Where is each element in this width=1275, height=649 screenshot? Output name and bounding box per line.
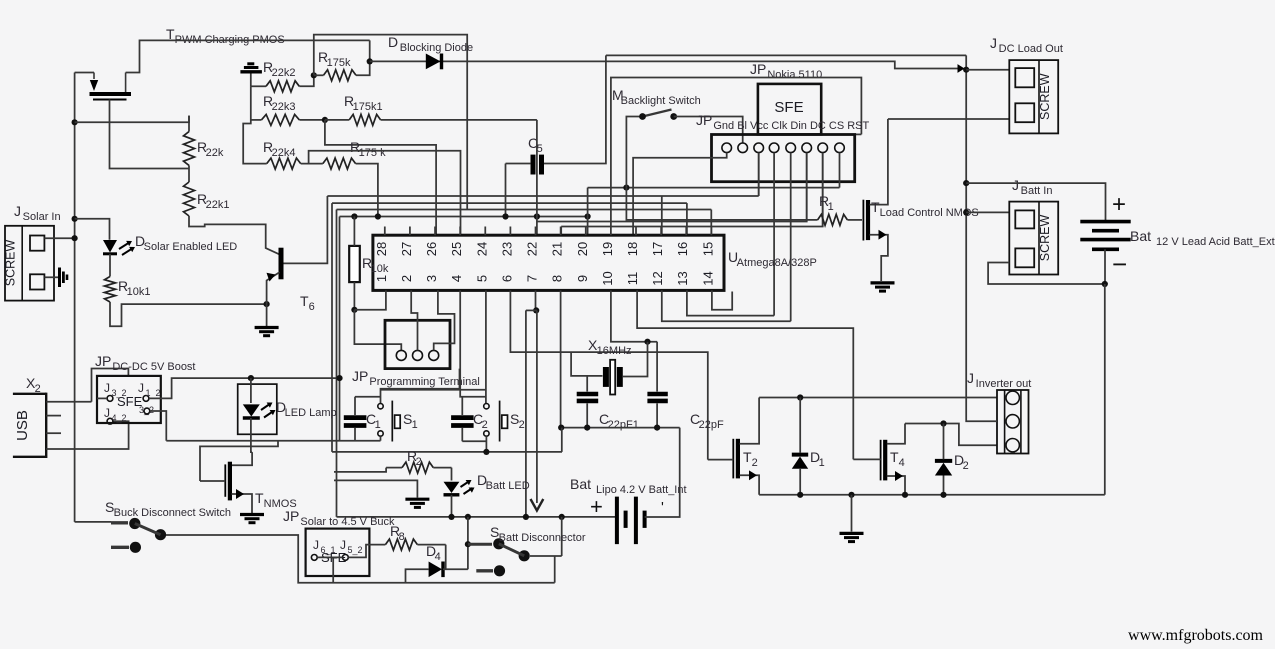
svg-text:22pF: 22pF: [699, 419, 724, 431]
switch S2 pads: [484, 404, 489, 409]
svg-text:12: 12: [650, 271, 665, 285]
wire IC top pin stubs: [384, 227, 386, 236]
svg-text:T: T: [871, 199, 880, 215]
svg-text:20: 20: [575, 242, 590, 256]
wire gate-gnd net: [334, 480, 417, 497]
node T6 emitter junction: [264, 301, 270, 307]
resistor R1: [818, 214, 848, 225]
svg-text:22k3: 22k3: [272, 101, 296, 113]
wire R22k3 tap to pin3 column: [325, 120, 436, 235]
crystal X1 16MHz: [603, 367, 609, 387]
wire prog right pad to pin3: [434, 290, 455, 350]
svg-text:4: 4: [435, 551, 441, 563]
svg-text:Batt Disconnector: Batt Disconnector: [499, 532, 586, 544]
wire lamp anode: [250, 378, 252, 403]
node H5 R175k2: [375, 213, 381, 219]
svg-text:JP: JP: [352, 368, 368, 384]
resistor R175k: [324, 70, 357, 81]
node boost-LED junction: [248, 375, 254, 381]
wire boost pad4 net: [150, 411, 167, 441]
arrowhead down: [531, 499, 544, 511]
node rail gnd: [848, 492, 854, 498]
resistor R10k1: [105, 277, 116, 303]
wire c6 net: [537, 153, 807, 222]
IC U1 Atmega8A/328P: [373, 235, 724, 290]
wire R2 to LED: [451, 468, 453, 481]
svg-text:14: 14: [700, 271, 715, 285]
svg-text:Bat: Bat: [570, 476, 591, 492]
wire pin7 column: [536, 120, 538, 235]
svg-text:2: 2: [482, 419, 488, 431]
svg-text:16: 16: [675, 242, 690, 256]
svg-text:2: 2: [519, 419, 525, 431]
svg-text:8: 8: [399, 531, 405, 543]
wire Din pin lead: [790, 153, 792, 322]
svg-text:1: 1: [828, 201, 834, 213]
svg-text:15: 15: [700, 242, 715, 256]
svg-text:Inverter out: Inverter out: [976, 378, 1032, 390]
svg-text:175k1: 175k1: [353, 101, 383, 113]
svg-text:21: 21: [550, 242, 565, 256]
transistor T4: [880, 440, 882, 481]
svg-text:J: J: [313, 538, 319, 552]
wire disconnector riser: [467, 517, 469, 569]
node solar pin1 junction: [72, 235, 78, 241]
svg-text:22k: 22k: [206, 147, 224, 159]
wire batt+ lead: [966, 183, 1105, 222]
wire bus H3: [332, 202, 687, 204]
wire D4 cathode net: [443, 568, 468, 570]
power symbol above R22k2: [240, 70, 262, 73]
svg-text:24: 24: [474, 242, 489, 256]
svg-text:www.mfgrobots.com: www.mfgrobots.com: [1128, 627, 1264, 644]
node rail-LED junction: [72, 216, 78, 222]
wire buck pads: [317, 556, 342, 558]
svg-text:Backlight Switch: Backlight Switch: [621, 95, 701, 107]
battery Bat2 Lipo 4.2V internal: [615, 497, 619, 544]
wire left rail: [74, 73, 76, 522]
wire inverter top net: [759, 397, 997, 399]
wire usb pin3: [46, 432, 61, 434]
wire crystal left lead: [571, 352, 602, 376]
wire dcload top pin: [966, 69, 1009, 71]
wire Gnd pin lead: [633, 153, 727, 236]
svg-text:Lipo 4.2 V Batt_Int: Lipo 4.2 V Batt_Int: [596, 484, 687, 496]
node H5 pin7: [534, 213, 540, 219]
connector J1 Solar In screw terminal: [5, 226, 54, 301]
node pin8 rail: [558, 425, 564, 431]
wire PMOS gate: [110, 100, 190, 169]
node rail battin: [963, 209, 969, 215]
connector J4 Inverter out: [997, 390, 1029, 454]
svg-text:Batt LED: Batt LED: [486, 480, 530, 492]
svg-text:3: 3: [424, 275, 439, 282]
svg-text:27: 27: [399, 242, 414, 256]
capacitor C1: [344, 415, 367, 420]
svg-text:JP: JP: [283, 508, 299, 524]
node rail C3: [584, 425, 590, 431]
wire CS pin lead: [822, 153, 824, 227]
svg-text:10k: 10k: [371, 263, 389, 275]
node batt- junction: [1102, 281, 1108, 287]
wire diode net: [370, 61, 958, 68]
wire switch out: [166, 535, 555, 583]
wire DC pin lead: [806, 153, 808, 222]
node R10k bottom junction: [351, 307, 357, 313]
wire c7 net: [561, 153, 823, 227]
node H5 C5: [502, 213, 508, 219]
svg-text:LED Lamp: LED Lamp: [285, 407, 337, 419]
svg-text:7: 7: [525, 275, 540, 282]
connector JP1 DC-DC 5V Boost: [97, 376, 161, 423]
wire top net to C5: [606, 54, 966, 56]
wire pin6 to T2 gate: [510, 290, 707, 459]
svg-text:1: 1: [412, 419, 418, 431]
wire left long rail B: [336, 210, 338, 517]
svg-text:4: 4: [449, 275, 464, 282]
transistor T1 PWM Charging PMOS: [90, 92, 132, 96]
wire pin12 to c5: [662, 290, 791, 321]
wire rail to solar LED: [75, 219, 110, 240]
svg-text:Batt In: Batt In: [1021, 185, 1053, 197]
svg-text:1: 1: [374, 275, 389, 282]
wire pin10 to crystal right: [611, 290, 657, 341]
wire bus H2 (T6 collector net): [327, 195, 758, 197]
node crystal right: [644, 339, 650, 345]
node rail batt+: [963, 180, 969, 186]
svg-text:11: 11: [625, 272, 640, 286]
wire D4 anode: [406, 569, 429, 582]
capacitor C2: [451, 415, 474, 420]
svg-text:2: 2: [752, 457, 758, 469]
wire T3 gate feed: [200, 441, 278, 481]
svg-text:Blocking Diode: Blocking Diode: [397, 42, 473, 54]
wire lipo minus riser: [645, 428, 680, 517]
svg-text:Solar to 4.5 V Buck: Solar to 4.5 V Buck: [300, 516, 395, 528]
svg-text:JP: JP: [95, 353, 111, 369]
wire PMOS source to left rail: [75, 72, 94, 74]
svg-text:J: J: [104, 381, 110, 395]
wire batt- to source rail: [1104, 284, 1106, 495]
svg-text:10k1: 10k1: [127, 286, 151, 298]
svg-text:T: T: [255, 490, 264, 506]
svg-text:J: J: [104, 406, 110, 420]
svg-text:10: 10: [600, 271, 615, 285]
wire pin11 to T4 gate: [637, 290, 853, 459]
svg-text:Programming Terminal: Programming Terminal: [369, 376, 479, 388]
svg-text:J: J: [1012, 177, 1019, 193]
svg-text:8: 8: [550, 275, 565, 282]
wire RST pin lead: [839, 153, 841, 188]
svg-text:J: J: [990, 35, 997, 51]
wire usb pin1: [46, 401, 91, 403]
connector JP5 Solar to 4.5V Buck: [306, 529, 370, 576]
resistor R175k2: [323, 158, 356, 169]
wire bus H5 (dotted net): [340, 216, 588, 218]
node rail D1: [797, 492, 803, 498]
connector JP4 Programming Terminal: [385, 320, 450, 368]
wire LED to R10k1: [109, 254, 111, 277]
wire bus H1: [588, 187, 840, 189]
resistor R22k1: [184, 182, 195, 216]
transistor T6: [279, 248, 284, 280]
svg-text:18: 18: [625, 242, 640, 256]
wire H1 to H5 drop: [587, 188, 589, 236]
wire boost J3_2 stub: [97, 397, 107, 399]
svg-text:SFE: SFE: [117, 394, 143, 409]
wire source rail 495: [759, 494, 1105, 496]
svg-text:T: T: [300, 293, 309, 309]
svg-text:23: 23: [499, 242, 514, 256]
switch S4 Batt Disconnector: [468, 543, 492, 546]
wire bus H4: [337, 209, 712, 211]
svg-text:17: 17: [650, 242, 665, 256]
wire battin bottom pin: [988, 263, 1105, 285]
svg-text:1_2: 1_2: [145, 388, 160, 398]
node R22k2/R175k junction: [311, 72, 317, 78]
svg-text:J: J: [14, 203, 21, 219]
connector JP2 Nokia 5110: [758, 84, 821, 134]
wire usb pin4: [46, 421, 128, 449]
ground load NMOS: [871, 281, 895, 284]
svg-text:Solar In: Solar In: [23, 211, 61, 223]
wire gnd stub: [851, 495, 853, 532]
node rail D2: [940, 492, 946, 498]
svg-text:1: 1: [375, 419, 381, 431]
wire R22k4 tap riser: [309, 151, 461, 235]
wire T4 drain net: [905, 424, 997, 446]
node R22k3/R175k1 junction: [322, 117, 328, 123]
svg-text:19: 19: [600, 242, 615, 256]
svg-text:175 k: 175 k: [359, 147, 386, 159]
svg-text:2: 2: [416, 456, 422, 468]
svg-text:': ': [661, 499, 664, 516]
resistor R2: [402, 462, 433, 473]
wire Vcc pin lead: [758, 153, 760, 196]
svg-text:Solar Enabled LED: Solar Enabled LED: [144, 241, 238, 253]
connector J3 Batt In screw terminal: [1009, 202, 1058, 275]
svg-text:JP: JP: [696, 112, 712, 128]
svg-text:2: 2: [35, 383, 41, 395]
svg-text:22: 22: [525, 242, 540, 256]
svg-text:1: 1: [819, 457, 825, 469]
wire divider left rail: [243, 86, 267, 163]
wire dcload bottom pin: [888, 118, 1009, 120]
transistor T2: [732, 439, 734, 479]
transistor T3 NMOS: [224, 464, 226, 496]
node H5 R10k: [351, 213, 357, 219]
wire gnd rail 452: [332, 451, 562, 453]
transistor T5 Load Control NMOS: [862, 200, 864, 241]
wire R1 feed: [626, 188, 817, 220]
svg-text:6: 6: [499, 275, 514, 282]
switch S2: [499, 401, 501, 442]
svg-text:4_2: 4_2: [111, 413, 126, 423]
wire emitter to ground: [266, 304, 268, 326]
wire R10k to prog pad: [354, 310, 401, 351]
node rail disconnector: [465, 514, 471, 520]
svg-text:6: 6: [309, 301, 315, 313]
wire lamp cathode to T3 drain: [251, 418, 252, 452]
svg-text:J: J: [138, 381, 144, 395]
svg-text:−: −: [1112, 249, 1127, 279]
svg-text:22k1: 22k1: [206, 199, 230, 211]
arrowhead into batt rail: [958, 64, 965, 73]
svg-text:+: +: [1112, 191, 1126, 218]
wire solar pin2 to ground: [44, 276, 58, 278]
svg-text:Buck Disconnect Switch: Buck Disconnect Switch: [114, 507, 231, 519]
wire batt- lead: [1104, 249, 1106, 284]
connector X2 USB: [13, 394, 46, 457]
wire PMOS drain riser: [126, 40, 370, 72]
ground R2 area: [405, 498, 429, 501]
ground H-bridge: [840, 532, 864, 535]
diode D1 Blocking Diode: [426, 54, 441, 70]
ground T3: [240, 513, 264, 516]
svg-text:USB: USB: [14, 410, 31, 441]
svg-text:12 V Lead Acid Batt_Ext: 12 V Lead Acid Batt_Ext: [1156, 236, 1275, 248]
wire top rect: [314, 35, 467, 210]
svg-text:16MHz: 16MHz: [597, 345, 632, 357]
ground T6: [255, 326, 279, 329]
LED D4 LED Lamp: [238, 384, 277, 434]
wire left long rail A: [331, 203, 333, 452]
wire R2 feed: [334, 468, 386, 472]
resistor R8: [385, 539, 417, 550]
svg-text:SCREW: SCREW: [1038, 73, 1052, 120]
wire pin7 pair: [535, 290, 537, 310]
node rail arrowpair: [523, 514, 529, 520]
LED D3 Batt LED: [444, 482, 460, 493]
node D1 top: [797, 394, 803, 400]
svg-text:22k2: 22k2: [272, 67, 296, 79]
wire S2 bottom to gnd rail: [485, 436, 487, 452]
wire c3 net: [758, 153, 760, 196]
svg-text:5_2: 5_2: [347, 545, 362, 555]
svg-text:25: 25: [449, 242, 464, 256]
svg-text:22k4: 22k4: [272, 147, 296, 159]
resistor R22k: [184, 132, 195, 166]
svg-text:2: 2: [399, 275, 414, 282]
node rail lipo-: [559, 514, 565, 520]
resistor R10k: [349, 246, 360, 282]
connector J2 DC Load Out screw terminal: [1009, 60, 1058, 133]
wire prog bottom L: [381, 369, 460, 404]
switch M Backlight Switch: [626, 117, 642, 188]
wire S1 bottom: [380, 436, 382, 441]
svg-text:SCREW: SCREW: [4, 240, 18, 287]
svg-text:DC-DC 5V Boost: DC-DC 5V Boost: [112, 361, 195, 373]
wire S-block top bus: [485, 290, 487, 403]
wire battin top pin: [966, 211, 1009, 213]
svg-text:26: 26: [424, 242, 439, 256]
svg-text:J: J: [967, 370, 974, 386]
wire R10k1 bottom dogleg: [110, 302, 267, 326]
svg-text:2: 2: [963, 460, 969, 472]
wire nokia net: [611, 78, 862, 227]
wire solar pin1 to rail: [44, 237, 74, 239]
svg-text:5: 5: [474, 275, 489, 282]
svg-text:JP: JP: [750, 61, 766, 77]
wire LED to batt rail: [451, 495, 453, 517]
svg-text:T: T: [743, 449, 752, 465]
wire rail to R22k top: [75, 116, 189, 123]
wire crystal right lead: [623, 342, 648, 377]
connector JP3 Gnd Bl Vcc Clk Din DC CS RST: [712, 135, 855, 182]
svg-text:28: 28: [374, 242, 389, 256]
switch S1 pads: [378, 404, 383, 409]
wire pin4 to C2 top: [460, 290, 486, 396]
svg-text:Nokia 5110: Nokia 5110: [767, 69, 822, 81]
wire xtal ground rail: [561, 427, 680, 429]
LED D2 Solar Enabled LED: [103, 240, 117, 253]
wire left long rail C: [339, 217, 341, 441]
wire rail drop to gnd rail: [561, 428, 563, 452]
capacitor C3 22pF1: [577, 392, 599, 397]
wire pin14 dogleg: [712, 290, 732, 309]
wire usb pin2: [46, 415, 61, 417]
svg-text:DC Load Out: DC Load Out: [999, 43, 1063, 55]
svg-text:9: 9: [575, 275, 590, 282]
resistor R22k2: [266, 81, 299, 92]
svg-text:22pF1: 22pF1: [608, 419, 639, 431]
wire pin8 column: [560, 290, 562, 427]
node rail-R22k junction: [72, 119, 78, 125]
wire batt rail 517: [337, 516, 617, 518]
svg-text:Gnd Bl Vcc Clk Din DC CS RST: Gnd Bl Vcc Clk Din DC CS RST: [713, 120, 869, 132]
svg-text:13: 13: [675, 271, 690, 285]
node gnd rail S2: [483, 449, 489, 455]
ground solar (rotated): [58, 268, 61, 288]
switch S1: [391, 401, 393, 442]
wire prog mid pad to pin2: [411, 290, 417, 350]
diode D2: [935, 459, 952, 463]
node rail C4: [654, 425, 660, 431]
resistor R22k3: [261, 114, 299, 125]
capacitor C5: [531, 155, 536, 175]
wire batt+ rail: [965, 55, 967, 397]
svg-text:SCREW: SCREW: [1038, 215, 1052, 262]
svg-text:4: 4: [899, 457, 905, 469]
svg-text:Atmega8A/328P: Atmega8A/328P: [737, 257, 817, 269]
wire arrow net: [536, 310, 538, 503]
switch S3 Buck Disconnect: [75, 521, 111, 523]
wire Clk pin lead: [773, 153, 775, 316]
node disconnector pole: [465, 541, 471, 547]
capacitor C4 22pF: [647, 392, 667, 397]
node switch-pole junction: [623, 185, 629, 191]
node rail dcload: [963, 67, 969, 73]
node rail T4: [902, 492, 908, 498]
svg-text:Bat: Bat: [1130, 228, 1151, 244]
svg-text:175k: 175k: [327, 57, 351, 69]
wire C5 left riser: [505, 164, 507, 217]
wire R8 to D4 cathode: [445, 545, 447, 570]
node D2 top: [940, 420, 946, 426]
node boost net left rail: [336, 375, 342, 381]
diode D1: [792, 453, 808, 457]
resistor R22k4: [267, 158, 301, 169]
wire boost out net: [149, 378, 340, 398]
wire pin13 to c4: [687, 290, 774, 315]
wire R22k1 to T6 base: [189, 216, 280, 254]
resistor R175k1: [349, 114, 380, 125]
svg-text:+: +: [590, 494, 603, 519]
battery Bat1 12V Lead Acid: [1080, 220, 1130, 224]
wire inverter mid pin: [966, 398, 997, 422]
wire usb to boost top: [92, 369, 129, 402]
node H5 pin9: [585, 213, 591, 219]
